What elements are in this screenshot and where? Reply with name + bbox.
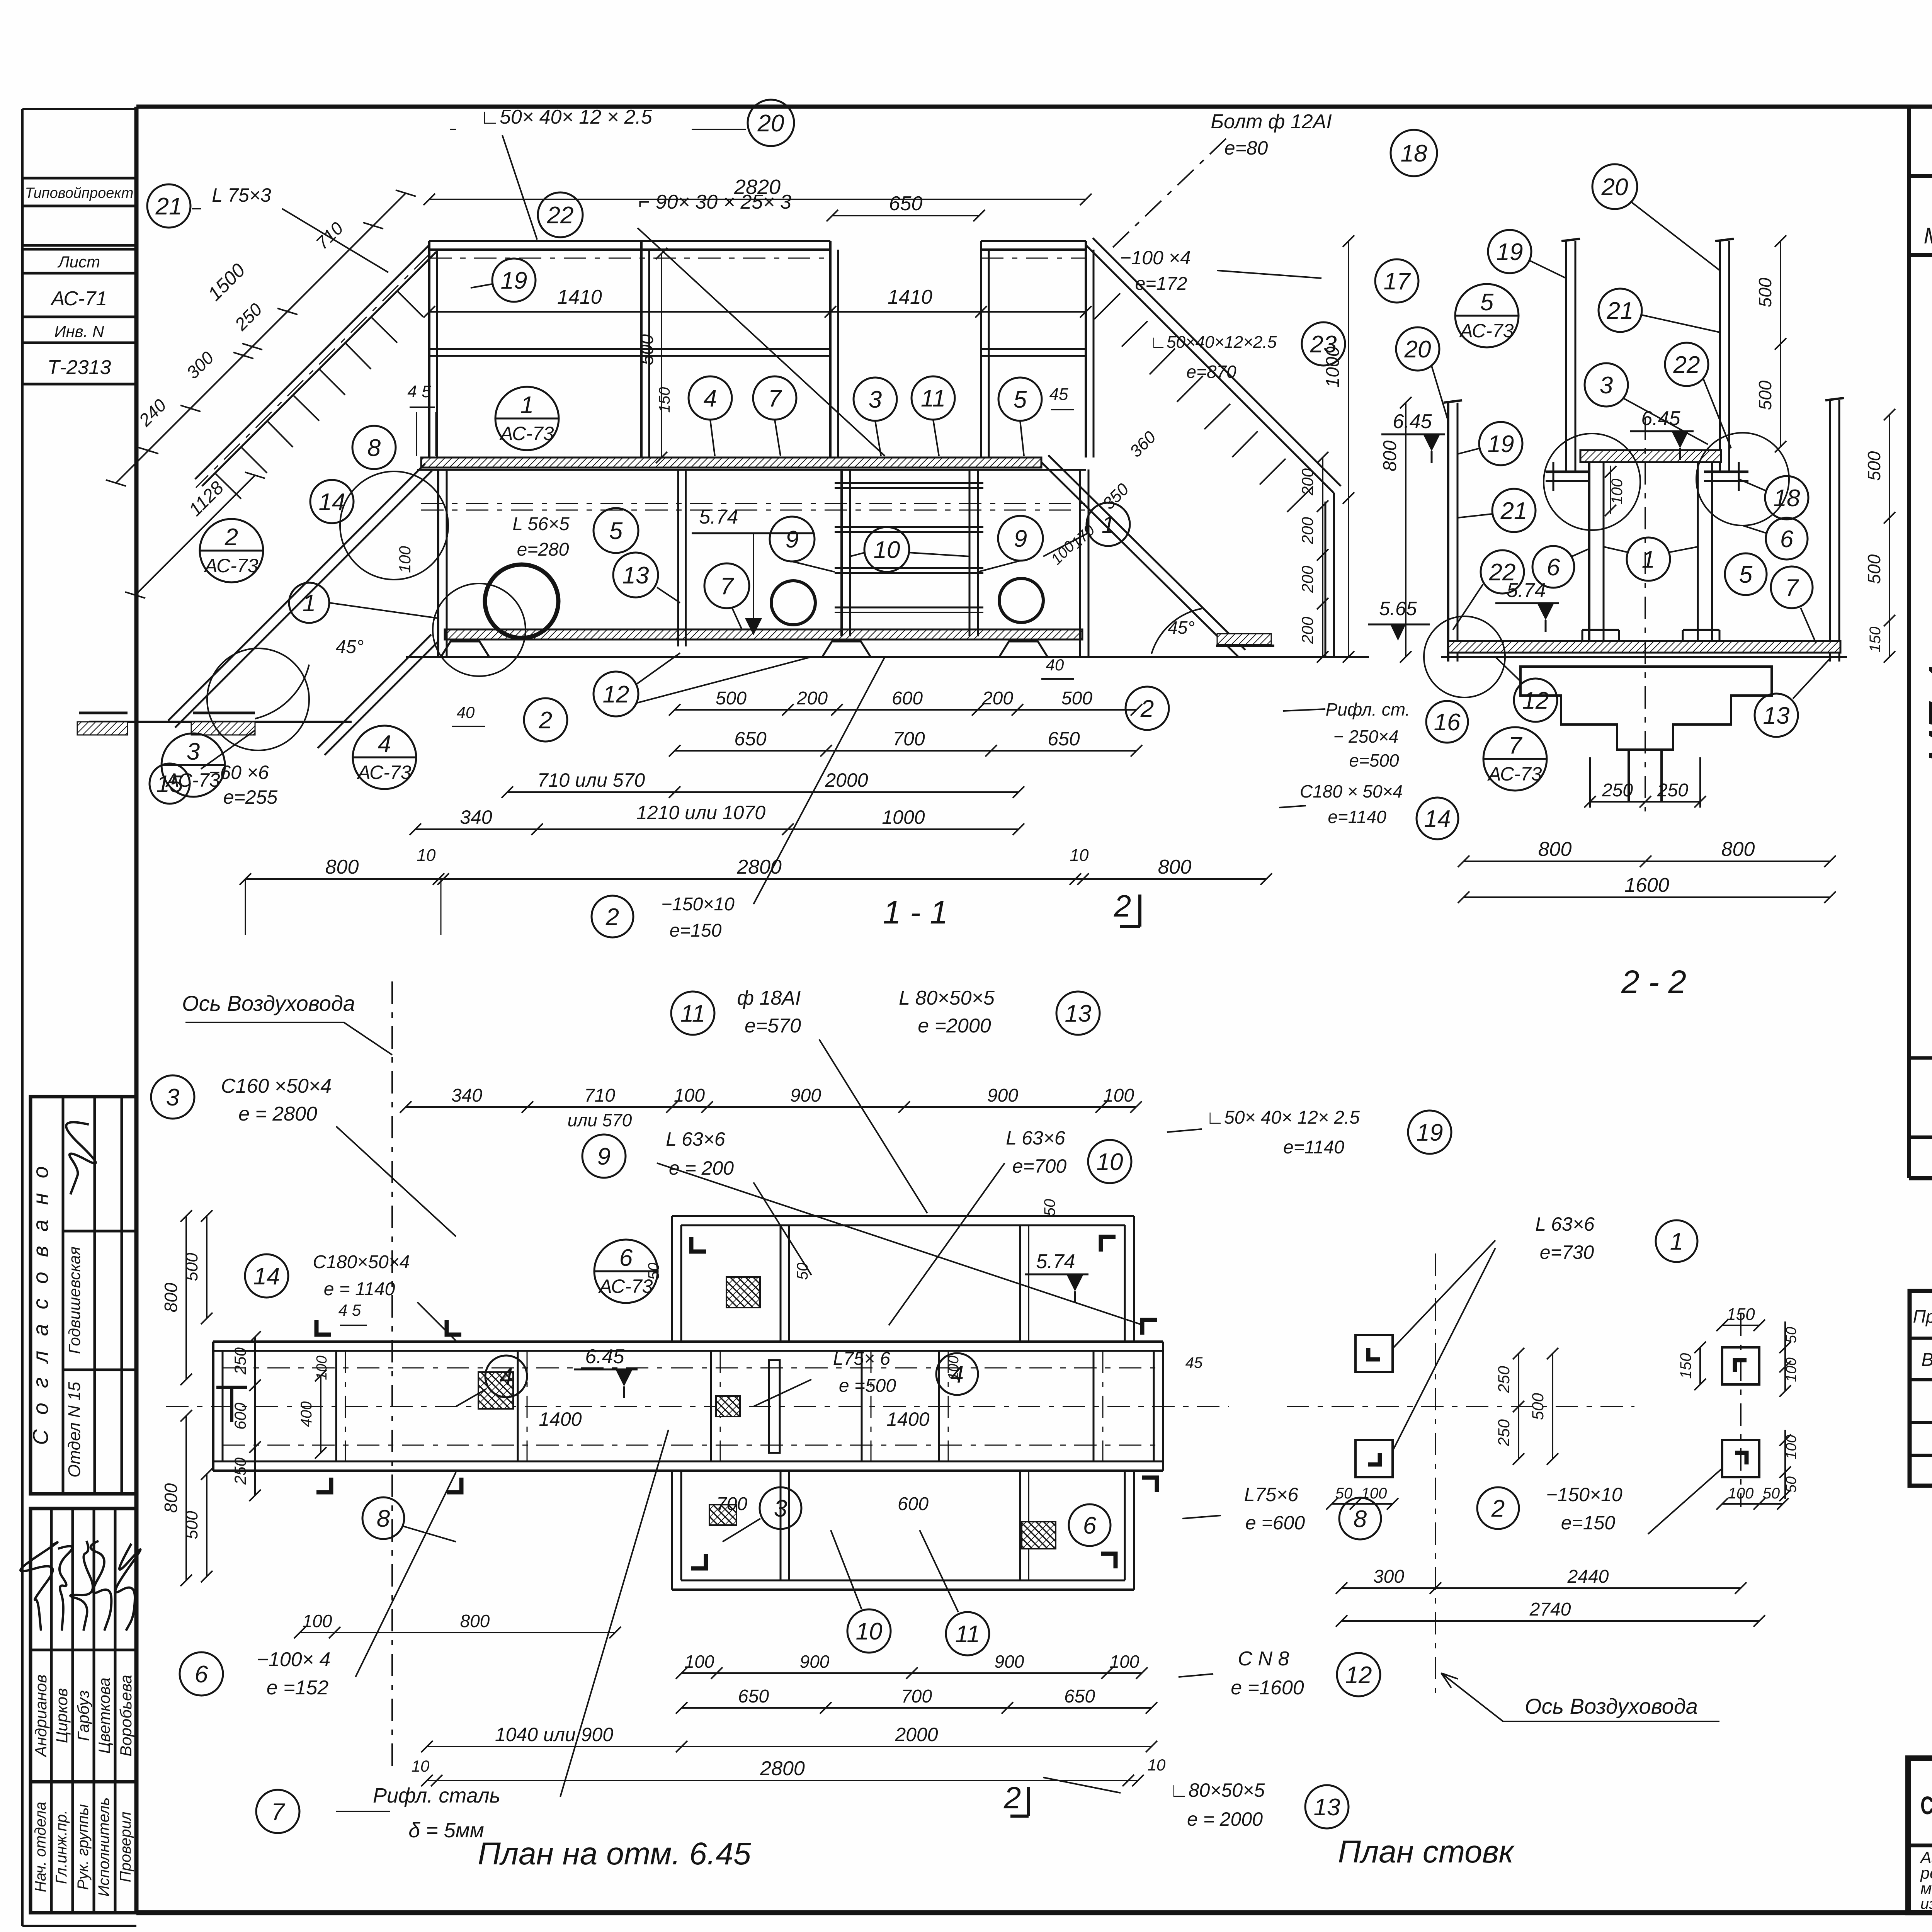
- svg-text:∟80×50×5: ∟80×50×5: [1170, 1779, 1265, 1801]
- svg-text:е = 1140: е = 1140: [324, 1279, 395, 1299]
- svg-text:500: 500: [182, 1253, 201, 1281]
- view 2-2: left inner post: [1565, 241, 1567, 472]
- svg-text:АС-73: АС-73: [598, 1276, 653, 1297]
- svg-text:4: 4: [500, 1364, 513, 1390]
- view 2-2: column cap plate: [1580, 450, 1721, 462]
- posts plan: dim 150 top: [1722, 1325, 1759, 1326]
- svg-text:е=150: е=150: [670, 920, 722, 941]
- svg-text:600: 600: [898, 1494, 929, 1514]
- view 1-1: dim 2820: [429, 199, 1086, 200]
- svg-text:45°: 45°: [336, 637, 364, 657]
- plan: hatch patches: [478, 1372, 513, 1409]
- svg-text:2: 2: [1114, 889, 1131, 923]
- svg-text:10: 10: [1070, 846, 1089, 865]
- svg-text:10: 10: [856, 1618, 883, 1645]
- svg-text:е = 2000: е = 2000: [1187, 1808, 1263, 1830]
- svg-text:500: 500: [637, 334, 657, 365]
- svg-text:∟50× 40× 12× 2.5: ∟50× 40× 12× 2.5: [1206, 1107, 1360, 1128]
- view 1-1: bottom dim chain 340-1210-1000: [415, 828, 1019, 830]
- view 1-1: balloons left cluster: [352, 426, 396, 469]
- svg-text:Болт ф 12АI: Болт ф 12АI: [1211, 111, 1332, 133]
- svg-text:L 63×6: L 63×6: [666, 1128, 725, 1150]
- svg-text:3: 3: [774, 1495, 787, 1522]
- svg-text:Нач. отдела: Нач. отдела: [32, 1802, 49, 1892]
- svg-text:−60 ×6: −60 ×6: [209, 762, 269, 783]
- svg-text:Годвишевская: Годвишевская: [65, 1247, 83, 1354]
- main drawing frame: [136, 105, 1932, 109]
- svg-text:100: 100: [674, 1085, 705, 1106]
- svg-text:1000: 1000: [1323, 346, 1343, 388]
- svg-text:С180×50×4: С180×50×4: [313, 1252, 410, 1272]
- svg-text:17: 17: [1384, 268, 1411, 295]
- svg-text:13: 13: [622, 562, 649, 589]
- view 1-1: right stair stringer: [1041, 462, 1238, 657]
- posts plan: label -150x10 balloon 2: [1477, 1487, 1519, 1529]
- svg-text:4 5: 4 5: [407, 382, 431, 401]
- view 1-1: left 45 deg angle: [255, 665, 309, 719]
- view 1-1: right foot pad: [1216, 645, 1274, 647]
- svg-text:Гл.инж.пр.: Гл.инж.пр.: [53, 1810, 70, 1884]
- svg-text:5: 5: [609, 518, 623, 544]
- svg-text:е=1140: е=1140: [1328, 807, 1386, 827]
- svg-text:из сборного железобетона: из сборного железобетона: [1920, 1895, 1932, 1912]
- view 2-2: balloons top: [1592, 164, 1637, 209]
- svg-text:6.45: 6.45: [585, 1345, 624, 1368]
- svg-text:6.45: 6.45: [1393, 410, 1432, 433]
- svg-text:150: 150: [1867, 627, 1884, 653]
- svg-text:10: 10: [1148, 1756, 1166, 1774]
- view 2-2: balloons center: [1532, 546, 1574, 588]
- svg-text:Ось Воздуховода: Ось Воздуховода: [1525, 1694, 1698, 1718]
- svg-text:L 80×50×5: L 80×50×5: [899, 987, 995, 1009]
- svg-text:22: 22: [547, 202, 574, 229]
- view 1-1: left diagonal dim fan: [148, 193, 406, 451]
- svg-text:е =500: е =500: [839, 1376, 896, 1396]
- svg-text:650: 650: [1048, 728, 1080, 750]
- svg-text:650: 650: [889, 192, 923, 215]
- view 1-1: right railing flight: [1086, 245, 1334, 493]
- view 1-1: web holes: [485, 565, 558, 638]
- view 2-2: balloons bottom: [1514, 679, 1557, 722]
- svg-text:8: 8: [1354, 1506, 1367, 1532]
- svg-text:14: 14: [1424, 806, 1451, 832]
- svg-text:3: 3: [869, 386, 882, 413]
- svg-text:10: 10: [417, 846, 436, 865]
- svg-text:10: 10: [412, 1757, 430, 1775]
- svg-text:Проверил: Проверил: [117, 1812, 134, 1883]
- svg-text:L 75×3: L 75×3: [212, 184, 271, 206]
- plan: top wing: [672, 1215, 1134, 1217]
- plan: bottom dim chains: [300, 1632, 615, 1633]
- svg-text:800: 800: [460, 1611, 490, 1631]
- svg-text:е=150: е=150: [1561, 1512, 1616, 1534]
- svg-text:100: 100: [314, 1355, 330, 1380]
- view 1-1: platform end plates: [437, 469, 439, 657]
- svg-text:800: 800: [325, 856, 359, 878]
- svg-text:5.74: 5.74: [699, 506, 738, 528]
- svg-text:е=700: е=700: [1012, 1155, 1067, 1177]
- svg-text:700: 700: [901, 1686, 932, 1707]
- view 1-1: balloon 2 label -150x10: [592, 896, 633, 937]
- svg-text:12: 12: [1345, 1662, 1372, 1689]
- svg-text:1210 или 1070: 1210 или 1070: [636, 802, 765, 823]
- svg-text:L75× 6: L75× 6: [833, 1349, 890, 1369]
- plan: band internal stiffeners: [335, 1351, 337, 1461]
- svg-text:50: 50: [1041, 1199, 1058, 1216]
- svg-text:L 63×6: L 63×6: [1535, 1213, 1595, 1235]
- svg-text:6: 6: [195, 1661, 208, 1688]
- svg-text:7: 7: [1785, 575, 1799, 601]
- sidebar box: Лист: [22, 249, 136, 273]
- view 1-1: left railing flight: [195, 245, 429, 479]
- svg-text:45: 45: [1049, 385, 1068, 404]
- view 1-1: bottom dim chain 710/2000: [507, 791, 1019, 793]
- view 1-1: lower platform plate 5.74: [445, 629, 1082, 639]
- svg-text:⌐ 90× 30 × 25× 3: ⌐ 90× 30 × 25× 3: [638, 191, 791, 213]
- svg-text:1: 1: [1642, 546, 1655, 573]
- svg-text:250: 250: [1602, 780, 1633, 801]
- svg-text:ф 18АI: ф 18АI: [737, 987, 801, 1009]
- svg-text:700: 700: [893, 728, 925, 750]
- svg-text:21: 21: [1500, 498, 1527, 524]
- signature in stamp: [49, 1119, 105, 1199]
- plan: left dim chains: [185, 1216, 187, 1379]
- svg-text:6: 6: [1547, 554, 1560, 581]
- plan: top dim chain 340-710-100-900-900-100: [406, 1106, 1136, 1108]
- svg-text:1: 1: [1670, 1228, 1683, 1255]
- svg-text:150: 150: [656, 387, 673, 413]
- svg-text:45: 45: [1185, 1354, 1203, 1371]
- svg-text:900: 900: [987, 1085, 1018, 1106]
- svg-text:е =1600: е =1600: [1231, 1677, 1304, 1699]
- svg-text:19: 19: [1417, 1119, 1443, 1146]
- view 1-1: rail-deck dim 500: [661, 253, 662, 457]
- svg-text:12: 12: [603, 681, 629, 708]
- svg-text:11: 11: [921, 385, 946, 412]
- svg-text:19: 19: [1488, 431, 1514, 457]
- svg-text:L 63×6: L 63×6: [1006, 1127, 1065, 1149]
- view 1-1: upper deck plate 6.45: [421, 457, 1041, 468]
- view 1-1: right flight end post: [1333, 493, 1335, 657]
- view 1-1: left flight treads: [397, 291, 423, 317]
- svg-text:Отдел N 15: Отдел N 15: [65, 1382, 84, 1478]
- posts plan: mid dims 250 250 500: [1518, 1354, 1519, 1459]
- plan: balloon 9 label L63x6: [582, 1134, 626, 1178]
- view 1-1: right dim chains: [1322, 457, 1323, 657]
- sidebar box: Типовой проект: [22, 178, 136, 206]
- svg-text:Ось Воздуховода: Ось Воздуховода: [182, 991, 355, 1015]
- sidebar box: Инв N: [22, 317, 136, 343]
- posts plan: squares with angles: [1355, 1335, 1393, 1372]
- view 2-2: balloons left: [1396, 327, 1439, 371]
- svg-text:Исполнитель: Исполнитель: [95, 1798, 112, 1897]
- view 2-2: right outer post: [1829, 400, 1831, 662]
- svg-text:АС-73: АС-73: [204, 555, 259, 577]
- view 1-1: bottom dim chain 650-700-650: [675, 750, 1136, 752]
- svg-text:1: 1: [1102, 512, 1115, 538]
- svg-text:500: 500: [1864, 451, 1884, 481]
- svg-text:5: 5: [1739, 561, 1753, 588]
- plan: balloon 14 label C180x50x4: [245, 1254, 288, 1298]
- svg-text:АС-73: АС-73: [1487, 763, 1542, 785]
- svg-text:200: 200: [982, 688, 1013, 709]
- svg-text:150: 150: [1726, 1305, 1755, 1324]
- svg-text:2800: 2800: [736, 856, 782, 878]
- plan: deck band outline: [213, 1340, 1163, 1343]
- svg-text:2800: 2800: [760, 1757, 805, 1780]
- svg-text:∟50×40×12×2.5: ∟50×40×12×2.5: [1150, 333, 1277, 352]
- svg-text:500: 500: [716, 688, 747, 709]
- svg-text:3: 3: [1600, 372, 1613, 399]
- svg-text:2: 2: [1491, 1495, 1505, 1522]
- view 1-1: balloon 19: [492, 259, 536, 302]
- svg-text:500: 500: [182, 1511, 201, 1539]
- svg-text:650: 650: [738, 1686, 769, 1707]
- plan: balloon 4 + 6.45: [485, 1355, 527, 1397]
- svg-text:4: 4: [378, 731, 391, 757]
- plan: balloon 11 label f18AI: [671, 992, 714, 1035]
- svg-text:11: 11: [680, 1000, 705, 1027]
- svg-text:500: 500: [1061, 688, 1092, 709]
- svg-text:13: 13: [1065, 1000, 1092, 1027]
- svg-text:2: 2: [1003, 1781, 1021, 1815]
- svg-text:е = 2800: е = 2800: [238, 1103, 317, 1125]
- svg-text:2440: 2440: [1567, 1566, 1609, 1587]
- svg-text:−150×10: −150×10: [661, 894, 735, 915]
- svg-text:22: 22: [1673, 352, 1700, 378]
- view 1-1: bottom dim chain 500-200-600-200-500: [675, 709, 1136, 711]
- plan: vertical duct axis: [391, 981, 393, 1766]
- svg-text:−100× 4: −100× 4: [257, 1648, 331, 1671]
- svg-text:13: 13: [1314, 1794, 1340, 1821]
- view 2-2: column axis line: [1645, 417, 1646, 811]
- view 2-2: detail circles: [1544, 434, 1640, 530]
- svg-text:1: 1: [520, 392, 534, 418]
- view 1-1: railing posts: [428, 241, 430, 457]
- view 1-1: left stair stringer: [168, 464, 425, 721]
- svg-text:Профиль: Профиль: [1913, 1306, 1932, 1327]
- view 1-1: balloon 15 label -60x6: [150, 764, 190, 804]
- svg-text:340: 340: [460, 806, 492, 828]
- svg-text:2000: 2000: [825, 769, 868, 791]
- svg-text:5: 5: [1480, 289, 1494, 316]
- view 1-1: top rail segments: [429, 240, 830, 242]
- svg-text:600: 600: [892, 688, 923, 709]
- svg-text:9: 9: [1014, 526, 1027, 552]
- svg-text:7: 7: [720, 573, 735, 600]
- svg-text:7: 7: [1509, 732, 1523, 759]
- svg-text:20: 20: [757, 110, 784, 137]
- svg-text:10: 10: [1097, 1149, 1123, 1175]
- svg-text:6: 6: [619, 1245, 633, 1271]
- svg-text:100: 100: [685, 1651, 714, 1672]
- svg-text:22: 22: [1489, 559, 1516, 586]
- svg-text:е =152: е =152: [267, 1677, 329, 1699]
- svg-text:1 - 1: 1 - 1: [883, 894, 948, 930]
- svg-text:−100 ×4: −100 ×4: [1120, 247, 1191, 269]
- plan: left end tee mark: [230, 1387, 233, 1422]
- svg-text:е=730: е=730: [1540, 1242, 1594, 1263]
- svg-text:4: 4: [704, 385, 717, 412]
- svg-text:21: 21: [155, 193, 182, 220]
- svg-text:АС-73: АС-73: [357, 762, 412, 783]
- svg-text:3: 3: [187, 738, 200, 765]
- view 1-1: dim 1410 row: [429, 311, 1086, 313]
- stamp: Согласовано table: [31, 1097, 136, 1494]
- svg-text:250: 250: [1657, 780, 1688, 801]
- posts plan: bottom small dims 50 100: [1332, 1503, 1393, 1505]
- svg-text:710 или 570: 710 или 570: [537, 769, 645, 791]
- svg-text:АС-71: АС-71: [50, 287, 107, 310]
- svg-text:Согласовано: Согласовано: [28, 1151, 53, 1445]
- view 1-1: bottom ground line: [406, 656, 1369, 658]
- svg-text:200: 200: [796, 688, 828, 709]
- svg-text:4 5: 4 5: [338, 1301, 361, 1319]
- svg-text:9: 9: [597, 1143, 611, 1170]
- view 1-1: deck hidden bottom lines: [421, 503, 1086, 504]
- svg-text:6: 6: [1780, 526, 1794, 553]
- svg-text:800: 800: [1721, 838, 1755, 861]
- svg-text:340: 340: [451, 1085, 482, 1106]
- spec table grid: [1907, 107, 1911, 1178]
- plan: balloon 7 label rifl stal: [256, 1790, 299, 1833]
- svg-text:е=172: е=172: [1135, 274, 1187, 294]
- svg-text:10: 10: [874, 537, 900, 563]
- view 1-1: mid vertical plate: [677, 469, 679, 646]
- view 1-1: label L75x3 with balloon 21: [147, 184, 190, 228]
- svg-text:Типовойпроект: Типовойпроект: [25, 185, 134, 201]
- plan: bottom wing: [672, 1588, 1134, 1591]
- svg-text:Цветкова: Цветкова: [95, 1678, 113, 1754]
- svg-text:800: 800: [1380, 440, 1400, 471]
- plan: balloons 10 11 bottom: [847, 1609, 891, 1653]
- svg-text:100: 100: [1103, 1085, 1134, 1106]
- svg-text:700: 700: [716, 1494, 747, 1514]
- svg-text:Андрианов: Андрианов: [32, 1675, 50, 1758]
- view 2-2: right dim chain inner: [1780, 241, 1781, 447]
- svg-text:16: 16: [1434, 709, 1461, 736]
- svg-text:50: 50: [1335, 1485, 1353, 1502]
- svg-text:800: 800: [1538, 838, 1572, 861]
- svg-text:19: 19: [1497, 239, 1523, 265]
- svg-text:21: 21: [1607, 298, 1634, 324]
- svg-text:План на отм. 6.45: План на отм. 6.45: [478, 1836, 751, 1871]
- posts plan: dim 150 left of TR square: [1699, 1347, 1701, 1384]
- view 2-2: foundation pipe: [1628, 750, 1630, 802]
- view 1-1: detail circles: [207, 648, 309, 750]
- svg-text:100: 100: [303, 1611, 332, 1631]
- view 2-2: column body: [1588, 462, 1590, 641]
- svg-text:900: 900: [790, 1085, 821, 1106]
- plan: band internal dashed lines: [223, 1367, 1163, 1369]
- svg-text:18: 18: [1401, 140, 1427, 167]
- svg-text:18: 18: [1774, 485, 1800, 512]
- posts plan: bottom chains 300 2440 2740: [1342, 1587, 1741, 1589]
- plan: balloon2 6 AC-73: [594, 1240, 658, 1303]
- svg-text:Рифл. ст.: Рифл. ст.: [1326, 699, 1410, 719]
- plan: balloon 3 label C160x50x4: [151, 1075, 194, 1119]
- view 1-1: ladder pos 10: [840, 469, 843, 636]
- sidebar box: АС-71: [22, 273, 136, 317]
- svg-text:7: 7: [271, 1799, 286, 1825]
- posts plan: axes: [1287, 1406, 1634, 1407]
- svg-text:200: 200: [1298, 565, 1316, 593]
- view 1-1: label 90x30x25x3 with balloon 22: [538, 192, 583, 237]
- svg-text:50: 50: [1763, 1485, 1780, 1502]
- stamp: names/roles table: [31, 1509, 136, 1913]
- outer sheet margin line: [21, 109, 24, 1926]
- svg-text:250: 250: [231, 1457, 249, 1485]
- svg-text:500: 500: [1755, 380, 1775, 410]
- view 1-1: mid rail segments: [429, 348, 830, 350]
- svg-text:200: 200: [1298, 517, 1316, 544]
- svg-text:20: 20: [1601, 174, 1628, 201]
- svg-text:15: 15: [156, 771, 183, 798]
- plan: balloon 6 label -100x4: [180, 1652, 223, 1696]
- svg-text:Цирков: Цирков: [53, 1688, 71, 1743]
- svg-text:8: 8: [367, 435, 381, 461]
- svg-text:Марка: Марка: [1923, 223, 1932, 248]
- svg-text:е=280: е=280: [517, 539, 569, 560]
- svg-text:МП-4: МП-4: [1921, 665, 1932, 765]
- metal selection table grid: [1910, 1291, 1932, 1486]
- svg-text:е=1140: е=1140: [1283, 1137, 1344, 1158]
- svg-text:1000: 1000: [882, 806, 925, 828]
- svg-text:−150×10: −150×10: [1546, 1484, 1622, 1505]
- svg-text:2740: 2740: [1529, 1599, 1571, 1620]
- svg-text:500: 500: [1755, 277, 1775, 307]
- view 2-2: right dim chain outer: [1889, 415, 1890, 657]
- svg-text:− 250×4: − 250×4: [1333, 726, 1399, 747]
- svg-text:е =2000: е =2000: [918, 1015, 991, 1037]
- view 2-2: left outer post: [1447, 403, 1449, 662]
- view 2-2: dim 250 250: [1590, 801, 1700, 803]
- view 1-1: left foot pads and ground: [89, 721, 352, 723]
- svg-text:40: 40: [457, 703, 475, 721]
- svg-text:7: 7: [768, 385, 782, 412]
- svg-text:1400: 1400: [886, 1408, 929, 1430]
- svg-text:∟50× 40× 12 × 2.5: ∟50× 40× 12 × 2.5: [480, 106, 653, 128]
- svg-text:100: 100: [1110, 1651, 1139, 1672]
- view 2-2: post base plates: [1546, 471, 1590, 473]
- svg-text:5.65: 5.65: [1379, 598, 1417, 619]
- svg-text:5.74: 5.74: [1036, 1250, 1075, 1273]
- svg-text:АС-73: АС-73: [1459, 320, 1514, 342]
- svg-text:2 - 2: 2 - 2: [1621, 964, 1686, 1000]
- svg-text:650: 650: [1064, 1686, 1095, 1707]
- view 2-2: bottom dims 800 800 1600: [1464, 861, 1830, 862]
- svg-text:600: 600: [231, 1402, 249, 1430]
- plan: wing internal verticals: [780, 1225, 782, 1342]
- svg-text:3: 3: [166, 1084, 179, 1111]
- svg-text:2: 2: [224, 524, 238, 551]
- svg-text:L75×6: L75×6: [1244, 1484, 1299, 1505]
- svg-text:СОЮЗВОДОКАНАЛПРОЕКТ: СОЮЗВОДОКАНАЛПРОЕКТ: [1920, 1791, 1932, 1820]
- svg-text:Лист: Лист: [57, 253, 100, 271]
- view 2-2: foundation block: [1520, 667, 1772, 750]
- view 2-2: deck plate band: [1448, 641, 1840, 653]
- svg-text:е=500: е=500: [1349, 750, 1399, 770]
- svg-text:4: 4: [951, 1361, 964, 1388]
- svg-text:900: 900: [800, 1651, 830, 1672]
- svg-text:План стовк: План стовк: [1338, 1834, 1515, 1869]
- svg-text:Инв. N: Инв. N: [54, 322, 104, 340]
- view 2-2: deck support pads: [1582, 629, 1619, 631]
- svg-text:С N 8: С N 8: [1238, 1648, 1289, 1670]
- svg-text:650: 650: [734, 728, 767, 750]
- svg-text:19: 19: [501, 267, 527, 294]
- svg-text:Вес, кг: Вес, кг: [1921, 1350, 1932, 1370]
